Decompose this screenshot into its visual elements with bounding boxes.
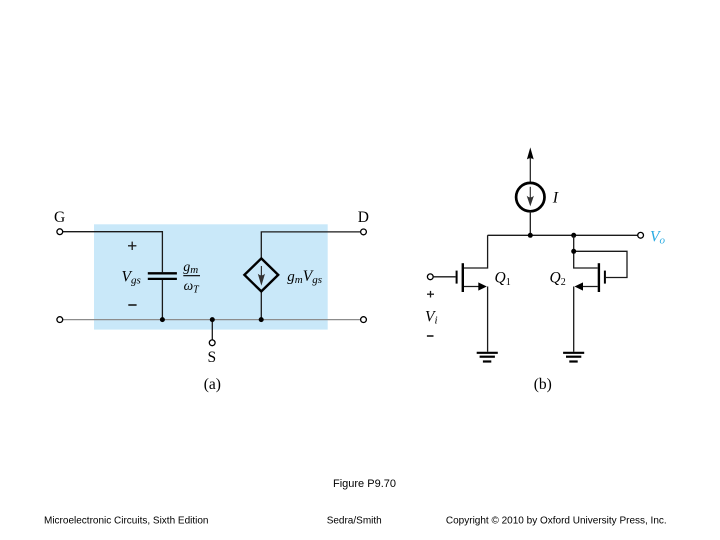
node dot S-rail	[210, 317, 215, 322]
dependent current source diamond	[244, 258, 278, 291]
current source I circle	[516, 183, 544, 211]
svg-text:(a): (a)	[204, 376, 221, 393]
ground under Q1	[477, 353, 498, 362]
terminal bottom-left	[57, 317, 63, 323]
wire input to Q1 gate	[433, 276, 455, 278]
capacitor plus label	[128, 242, 136, 250]
svg-text:Q1: Q1	[495, 269, 511, 288]
svg-text:Sedra/Smith: Sedra/Smith	[327, 515, 382, 526]
capacitor minus label	[128, 304, 136, 306]
wire bottom rail (a)	[63, 319, 361, 321]
Q1 source arrow	[478, 282, 487, 290]
svg-text:Q2: Q2	[550, 269, 566, 288]
svg-text:G: G	[54, 209, 65, 226]
wire G to capacitor top	[63, 232, 163, 273]
terminal bottom-right	[361, 317, 367, 323]
wire dependent source bottom to rail	[260, 291, 262, 319]
node dot capacitor-rail	[160, 317, 165, 322]
node dot source-rail junction	[528, 233, 533, 238]
transistor Q2	[571, 235, 627, 351]
wire output rail	[488, 234, 638, 236]
wire D to dependent source top	[261, 232, 360, 258]
Q2 drain lead	[574, 235, 598, 268]
terminal input	[427, 274, 433, 280]
svg-text:Copyright © 2010 by Oxford Uni: Copyright © 2010 by Oxford University Pr…	[446, 515, 667, 526]
wire capacitor bottom to rail	[161, 280, 163, 320]
svg-text:D: D	[358, 209, 369, 226]
svg-text:(b): (b)	[534, 376, 552, 393]
Q2 source arrow	[575, 282, 584, 290]
terminal Vo	[638, 232, 644, 238]
terminal D	[361, 229, 367, 235]
Q2 gate bar	[604, 271, 606, 284]
current source inner arrow	[529, 187, 531, 202]
Q2 source lead	[574, 287, 598, 352]
transistor Q1	[457, 235, 488, 351]
svg-text:I: I	[552, 189, 559, 206]
input plus label	[427, 291, 434, 298]
capacitor C (gm/wT) plates	[148, 272, 177, 274]
Q2 gate feedback loop	[574, 251, 627, 277]
wire current source to output rail	[529, 211, 531, 235]
Q1 source lead	[464, 287, 488, 352]
terminal S	[209, 340, 215, 346]
input minus label	[427, 335, 434, 337]
Q2 channel bar	[598, 263, 600, 292]
svg-text:Vi: Vi	[425, 308, 438, 326]
Q1 drain lead	[464, 235, 488, 268]
ground under Q2	[563, 353, 584, 362]
dependent source arrow	[260, 266, 262, 281]
wire S stub	[211, 320, 213, 340]
svg-text:Vo: Vo	[650, 228, 665, 246]
shaded region (a)	[94, 224, 328, 329]
Q1 channel bar	[462, 263, 464, 292]
terminal G	[57, 229, 63, 235]
node dot source-rail	[259, 317, 264, 322]
Q1 gate bar	[456, 271, 458, 284]
node dot Q2 drain junction	[571, 233, 576, 238]
svg-text:Microelectronic Circuits, Sixt: Microelectronic Circuits, Sixth Edition	[44, 515, 209, 526]
svg-text:Figure P9.70: Figure P9.70	[333, 478, 396, 490]
current source top arrow	[527, 147, 534, 159]
svg-text:S: S	[207, 349, 216, 366]
node dot Q2 gate tap	[571, 249, 576, 254]
